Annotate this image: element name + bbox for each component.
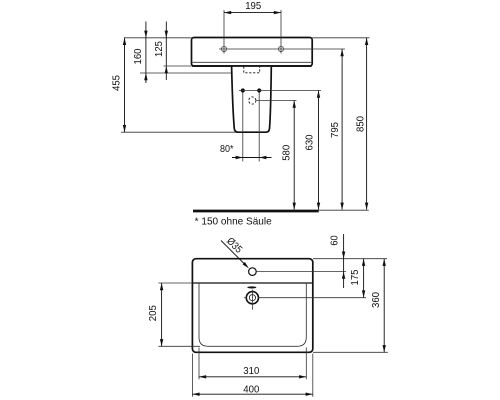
dimension 795	[341, 49, 343, 210]
dimension 160	[145, 22, 147, 84]
dashed circle (siphon hole)	[249, 97, 256, 104]
svg-text:310: 310	[243, 366, 259, 377]
plan bottom edge extension	[313, 351, 388, 353]
dimension 400	[192, 393, 312, 395]
svg-text:360: 360	[371, 292, 382, 308]
dashed trap outline	[244, 67, 260, 73]
washbasin body (side view)	[192, 38, 313, 67]
svg-text:160: 160	[133, 48, 144, 64]
dimension 850	[366, 38, 368, 210]
leader line for diameter 35	[221, 241, 247, 267]
left tap hole crosshair	[221, 46, 226, 51]
fixing hole dots	[241, 88, 245, 92]
dimension 60	[343, 234, 345, 288]
svg-text:* 150 ohne Säule: * 150 ohne Säule	[195, 217, 273, 228]
svg-text:455: 455	[111, 75, 122, 91]
svg-text:60: 60	[330, 235, 341, 246]
ledge extension (205 top)	[158, 282, 192, 284]
dimension 175	[363, 259, 365, 298]
fixing holes centre line (630 ext)	[239, 90, 321, 92]
drain centre line extension (175)	[258, 297, 366, 299]
dimension 455	[124, 38, 126, 132]
svg-text:80*: 80*	[220, 144, 234, 155]
svg-text:195: 195	[245, 1, 261, 12]
right tap hole crosshair	[278, 46, 283, 51]
tap hole (plan)	[249, 268, 257, 276]
310 extension lines	[198, 348, 200, 380]
dimension 125	[165, 22, 167, 81]
svg-text:580: 580	[282, 145, 293, 161]
drain outer circle	[246, 292, 258, 304]
overflow slot	[247, 286, 256, 288]
tap hole centre line	[219, 48, 345, 50]
pedestal bottom extension line	[121, 131, 236, 133]
floor line	[193, 210, 319, 213]
dimension 80*	[232, 157, 272, 159]
svg-text:795: 795	[330, 122, 341, 138]
svg-text:850: 850	[356, 116, 367, 132]
tap centre extension line (60)	[257, 271, 347, 273]
basin bottom edge over pedestal	[192, 65, 312, 67]
inner basin outline	[199, 283, 306, 346]
plan top edge extension	[313, 258, 387, 260]
drain centre left tick	[244, 297, 247, 299]
dimension 160 extension line	[140, 72, 244, 74]
dimension 195 extension lines	[223, 10, 225, 54]
svg-text:Ø35: Ø35	[224, 236, 244, 256]
back ledge line	[192, 282, 312, 284]
svg-text:125: 125	[154, 41, 165, 57]
dimension 310	[199, 376, 306, 378]
svg-text:630: 630	[305, 134, 316, 150]
floor extension line	[319, 209, 369, 211]
dimension 580	[293, 101, 295, 210]
basin top extension line (left)	[124, 37, 192, 39]
pedestal (side view)	[232, 66, 272, 132]
drain inner circle	[249, 295, 255, 301]
400 extension lines	[191, 354, 193, 397]
dimension 630	[318, 91, 320, 210]
580 top extension line	[256, 100, 296, 102]
svg-text:175: 175	[350, 269, 361, 285]
80 extension lines	[242, 93, 244, 162]
washbasin outline (plan view)	[192, 259, 312, 353]
basin inner shelf line	[193, 61, 312, 63]
dimension 205	[161, 283, 163, 346]
dimension 195	[224, 12, 281, 14]
dimension 360	[383, 259, 385, 353]
dimension 125 extension line	[164, 65, 192, 67]
svg-text:400: 400	[243, 384, 259, 395]
svg-text:205: 205	[148, 305, 159, 321]
drain centre vertical line	[251, 290, 253, 310]
inner bottom extension (205 bottom)	[158, 345, 200, 347]
basin top extension line (right)	[312, 37, 369, 39]
